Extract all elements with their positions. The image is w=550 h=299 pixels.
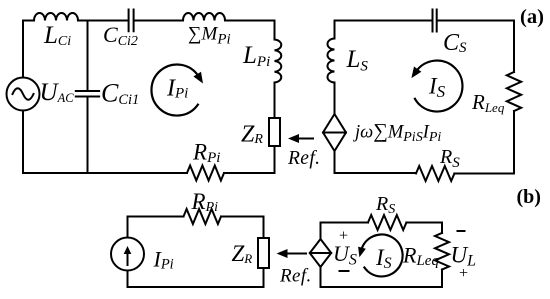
svg-text:IPi: IPi [153, 247, 174, 273]
svg-text:RS: RS [439, 146, 460, 171]
label minus U_S (line) [340, 270, 349, 272]
capacitor C_Ci2 [129, 10, 134, 32]
svg-text:UAC: UAC [40, 79, 75, 106]
wire left edge between L_S and diamond [334, 83, 336, 115]
svg-text:RLeq: RLeq [402, 243, 439, 270]
svg-text:CCi1: CCi1 [101, 79, 139, 109]
svg-text:CS: CS [443, 30, 467, 56]
wire top-left segment [23, 20, 34, 22]
impedance Z_R box [269, 118, 280, 146]
current loop arrow I_S (b) [361, 234, 402, 276]
current loop arrow I_Pi [151, 65, 198, 116]
wire top left of R_Pi (b) [128, 217, 184, 288]
wire top-right of left loop [225, 20, 275, 22]
svg-text:jω∑MPiSIPi: jω∑MPiSIPi [353, 121, 441, 146]
capacitor C_Ci1 [76, 91, 99, 97]
inductor L_S [328, 39, 335, 83]
impedance Z_R box (b) [258, 238, 269, 268]
svg-text:ZR: ZR [232, 241, 253, 266]
label minus U_L (line) [458, 230, 465, 232]
wire top right of R_Pi (b) [221, 217, 264, 239]
AC source U_AC [7, 78, 40, 111]
current source I_Pi (b) [111, 238, 144, 271]
svg-text:LPi: LPi [242, 42, 270, 70]
svg-text:RS: RS [375, 193, 395, 217]
wire bottom right segment [224, 172, 275, 174]
svg-text:(b): (b) [517, 186, 541, 208]
wire right edge between L_Pi and Z_R [274, 83, 276, 119]
controlled source diamond (b) [310, 239, 331, 267]
svg-text:(a): (a) [520, 6, 544, 28]
reference arrow (b) [285, 253, 306, 255]
svg-text:RLeq: RLeq [471, 90, 505, 115]
wire bottom left of R_S [335, 172, 417, 174]
wire top right segment (b right) [406, 223, 442, 234]
svg-text:LCi: LCi [43, 22, 71, 49]
resistor R_S (b) [368, 215, 406, 230]
resistor R_Leq (a) [507, 72, 521, 111]
inductor L_Pi [275, 40, 282, 83]
wire between C_Ci2 and sum M_Pi [135, 20, 183, 22]
svg-text:ZR: ZR [241, 122, 263, 148]
wire bottom right of R_S [454, 168, 514, 174]
wire top segment left of C_S [335, 20, 432, 22]
inductor sum M_Pi [183, 13, 225, 20]
wire middle vertical lower [87, 97, 89, 174]
svg-text:+: + [458, 265, 469, 282]
svg-text:∑MPi: ∑MPi [188, 24, 231, 48]
wire bottom (b left) [128, 286, 264, 288]
wire right edge below Z_R (b) [263, 268, 265, 287]
svg-text:RPi: RPi [192, 140, 220, 167]
current loop arrow I_S (a) [415, 61, 463, 112]
capacitor C_S [433, 10, 437, 32]
svg-text:LS: LS [346, 46, 369, 75]
wire right edge below R_Leq (b) [441, 270, 443, 288]
resistor R_Pi [187, 166, 224, 181]
wire between L_Ci and C_Ci2 [78, 20, 128, 22]
wire right edge above R_Leq [513, 21, 515, 73]
wire below diamond (b) [320, 267, 322, 287]
resistor R_Leq (b) [435, 233, 449, 270]
svg-text:Ref.: Ref. [279, 266, 312, 287]
wire top segment right of C_S [438, 20, 514, 22]
wire top left segment (b right) [321, 223, 369, 240]
resistor R_Pi (b) [184, 209, 222, 224]
wire middle vertical upper [87, 21, 89, 92]
resistor R_S (a) [416, 166, 454, 181]
svg-text:US: US [333, 241, 357, 269]
svg-text:IPi: IPi [166, 76, 188, 102]
svg-text:Ref.: Ref. [287, 148, 320, 169]
wire left edge lower [22, 111, 24, 174]
wire right edge below Z_R [274, 146, 276, 173]
reference arrow (a) [296, 138, 313, 140]
svg-text:RPi: RPi [191, 189, 219, 215]
controlled source diamond (a) [323, 114, 346, 151]
wire bottom left segment [23, 172, 187, 174]
wire bottom (b right) [321, 286, 443, 288]
svg-text:IS: IS [428, 74, 446, 102]
wire right edge below R_Leq [513, 111, 515, 173]
wire right edge above L_Pi [274, 21, 276, 40]
wire left edge below diamond [334, 151, 336, 173]
wire left edge upper [22, 21, 24, 78]
wire left edge above L_S [334, 21, 336, 39]
inductor L_Ci [34, 13, 78, 21]
svg-text:IS: IS [375, 245, 392, 272]
